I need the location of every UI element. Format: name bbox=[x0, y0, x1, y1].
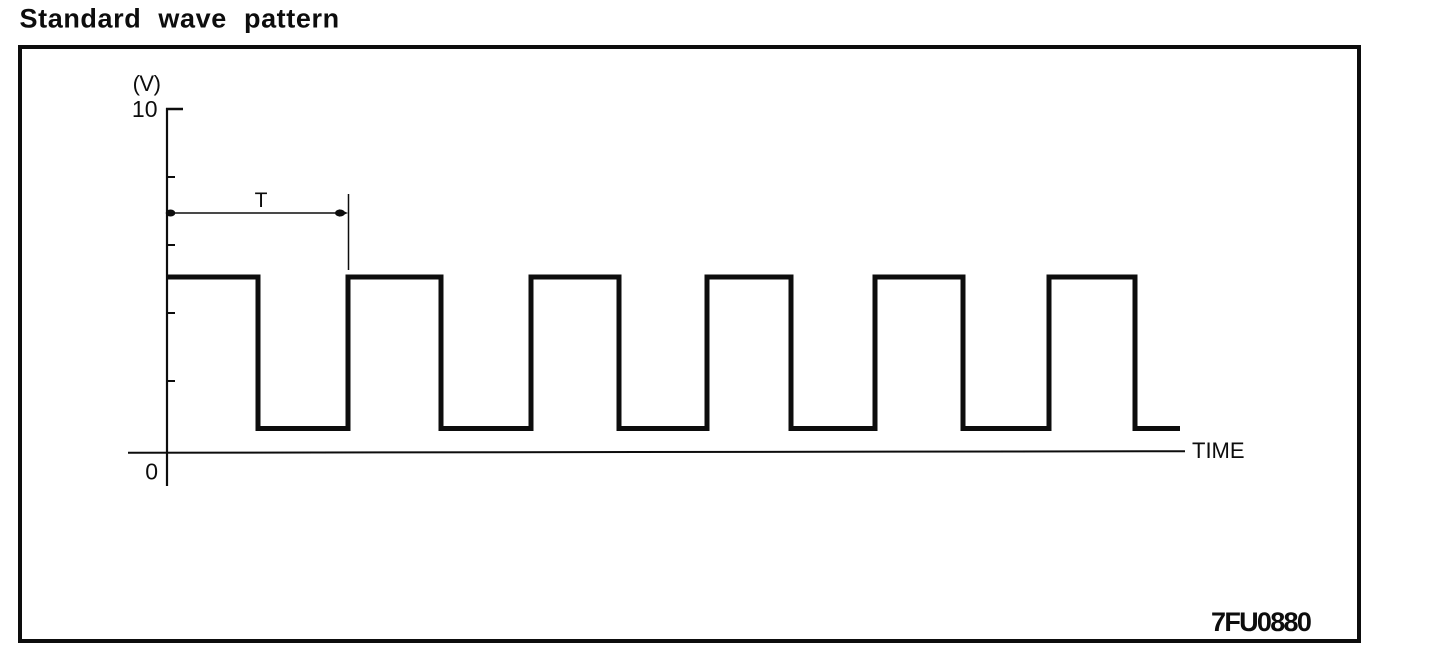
y-axis bbox=[166, 108, 168, 486]
x-axis (time axis) bbox=[128, 451, 1185, 453]
svg-text:TIME: TIME bbox=[1192, 438, 1245, 463]
T dimension arrow bbox=[172, 212, 343, 214]
svg-text:0: 0 bbox=[145, 459, 158, 485]
svg-text:(V): (V) bbox=[133, 71, 161, 96]
y-axis tick 6V bbox=[166, 244, 175, 246]
svg-text:7FU0880: 7FU0880 bbox=[1211, 607, 1311, 637]
y-axis tick 2V bbox=[166, 380, 175, 382]
svg-text:T: T bbox=[255, 189, 268, 212]
y-axis top tick (10 V) bbox=[166, 108, 183, 110]
svg-text:10: 10 bbox=[132, 96, 158, 122]
y-axis tick 4V bbox=[166, 312, 175, 314]
square wave bbox=[167, 277, 1180, 429]
period marker line bbox=[348, 194, 350, 270]
svg-text:Standard wave pattern: Standard wave pattern bbox=[20, 4, 340, 34]
y-axis tick 8V bbox=[166, 176, 175, 178]
